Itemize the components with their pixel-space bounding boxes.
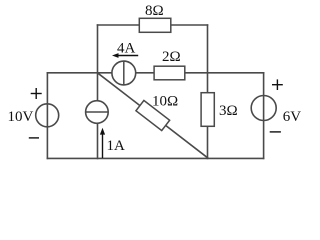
- svg-text:3Ω: 3Ω: [219, 103, 238, 119]
- svg-text:6V: 6V: [283, 109, 302, 125]
- wire right branch vertical (6V): [263, 73, 265, 159]
- current source 4A: [112, 61, 136, 85]
- wire left vertical of top loop down through 1A branch: [97, 25, 99, 158]
- svg-text:8Ω: 8Ω: [145, 3, 164, 19]
- arrow 4A (points left): [112, 40, 138, 58]
- voltage source 10V: [8, 104, 59, 127]
- wire top horizontal: [98, 24, 208, 26]
- svg-text:10V: 10V: [8, 109, 34, 125]
- resistor R 8ohm: [139, 3, 171, 32]
- plus sign 10V: [31, 88, 42, 99]
- arrow 1A (points up): [100, 128, 125, 158]
- wire diagonal (10-ohm branch): [97, 73, 207, 158]
- wire bottom horizontal: [47, 157, 263, 159]
- resistor R 10ohm (diagonal): [136, 94, 178, 131]
- wire left branch vertical (10V): [46, 73, 48, 159]
- svg-text:2Ω: 2Ω: [162, 49, 181, 65]
- svg-text:10Ω: 10Ω: [152, 94, 178, 110]
- resistor R 2ohm: [154, 49, 185, 80]
- voltage source 6V: [251, 96, 301, 126]
- svg-text:1A: 1A: [107, 138, 126, 154]
- wire middle horizontal: [47, 72, 263, 74]
- minus sign 10V: [29, 137, 39, 139]
- wire right vertical (top loop + 3-ohm branch): [207, 25, 209, 158]
- plus sign 6V: [272, 79, 283, 90]
- current source 1A: [86, 101, 109, 124]
- resistor R 3ohm: [201, 93, 238, 127]
- svg-text:4A: 4A: [117, 40, 136, 56]
- minus sign 6V: [270, 131, 281, 133]
